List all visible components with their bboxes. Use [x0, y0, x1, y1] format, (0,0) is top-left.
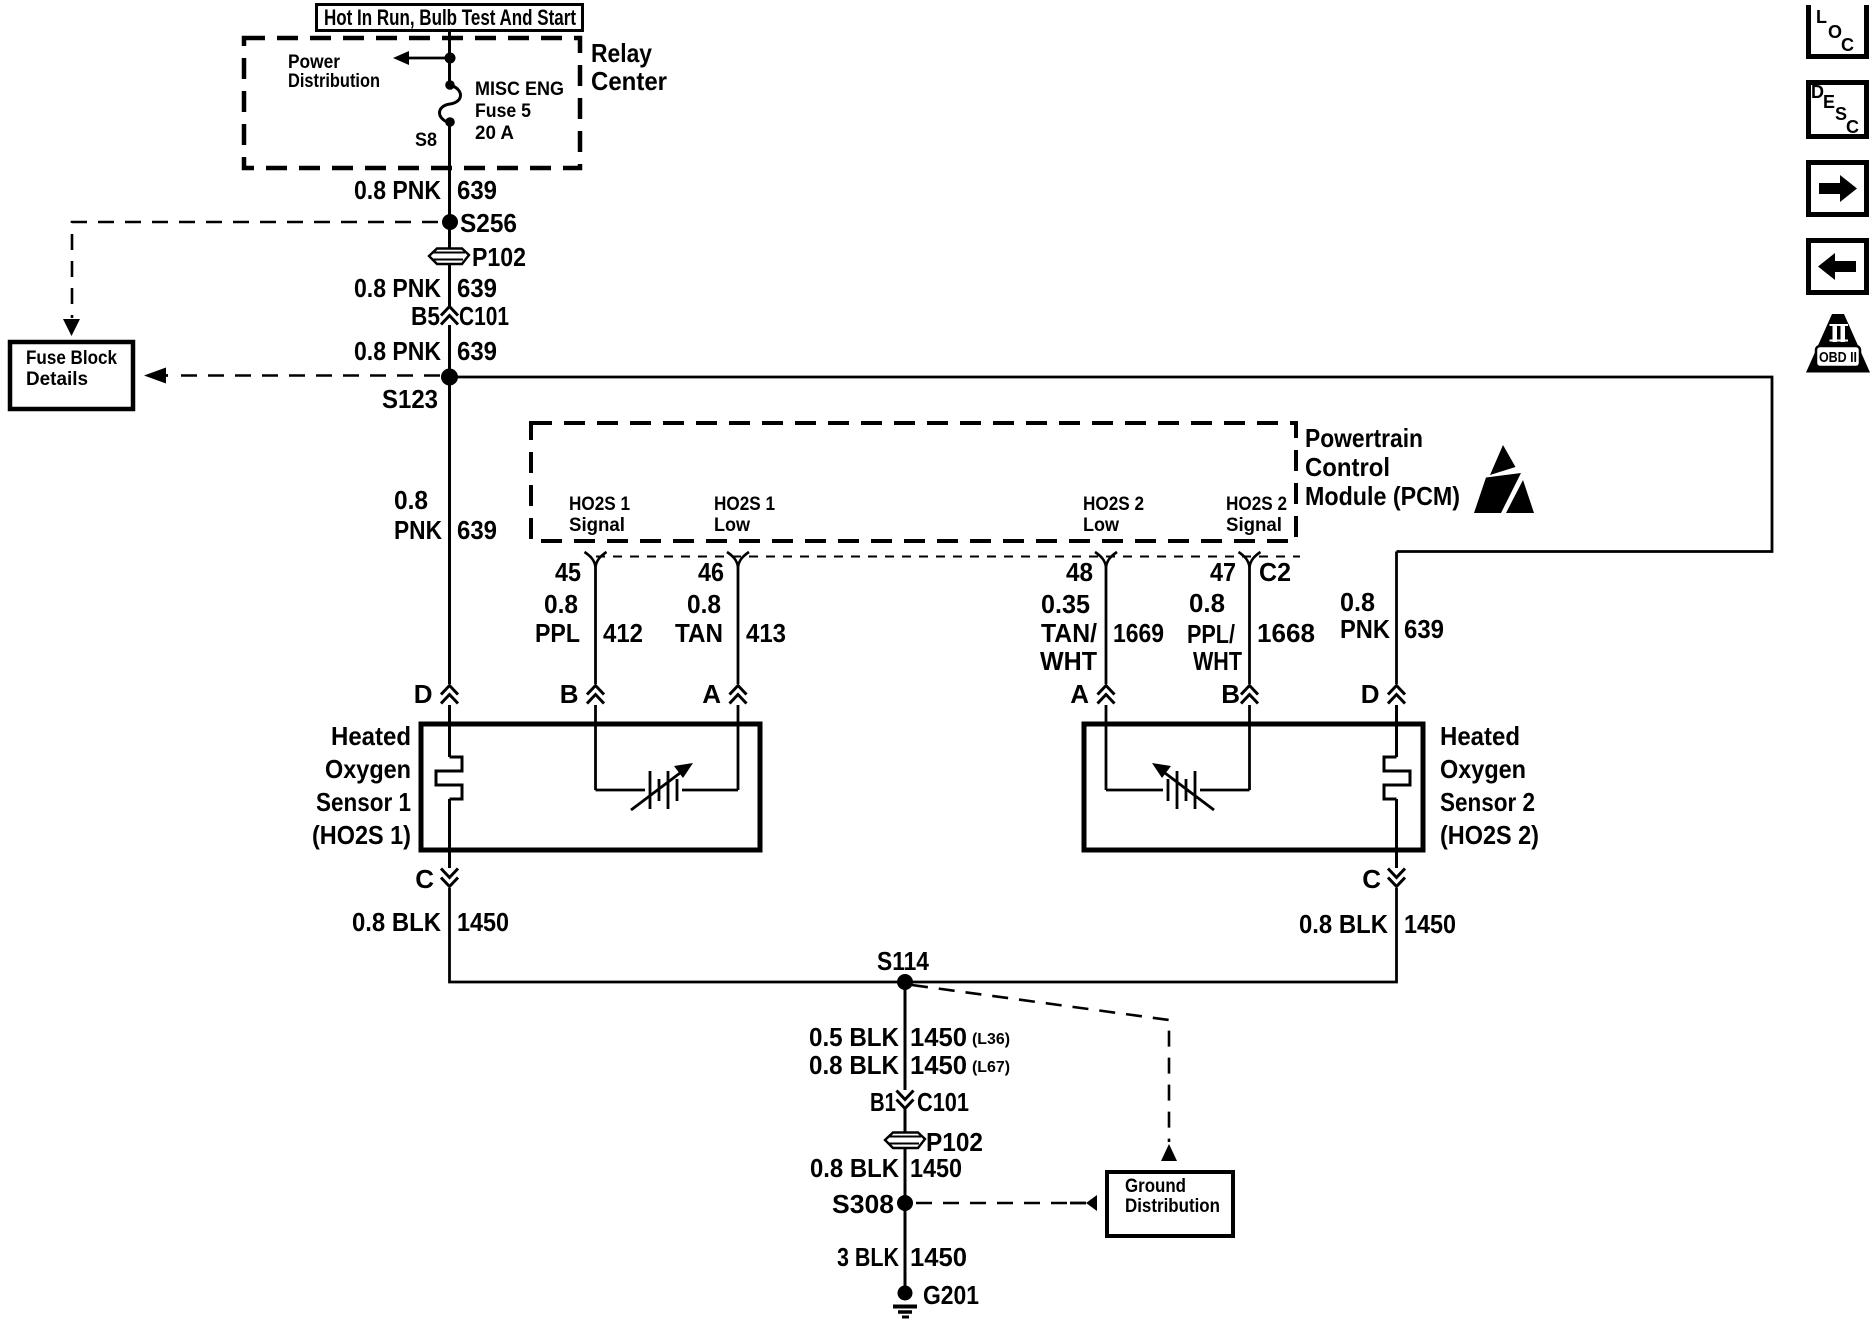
- terminal D (HO2S 1): [414, 679, 458, 709]
- terminal C (HO2S 1): [415, 864, 458, 894]
- sense element cell (HO2S 1): [631, 763, 693, 810]
- svg-text:Signal: Signal: [569, 515, 625, 536]
- dashed reference: S256 to Fuse Block Details: [63, 222, 438, 336]
- svg-text:WHT: WHT: [1193, 646, 1242, 676]
- svg-text:413: 413: [746, 618, 786, 648]
- svg-text:Powertrain: Powertrain: [1305, 423, 1423, 453]
- svg-text:A: A: [702, 679, 721, 709]
- svg-text:1669: 1669: [1113, 618, 1164, 648]
- label: 0.8 BLK 1450 (right): [1299, 909, 1456, 939]
- svg-text:B1: B1: [870, 1087, 896, 1117]
- svg-text:HO2S 2: HO2S 2: [1083, 494, 1144, 515]
- svg-text:Oxygen: Oxygen: [1440, 754, 1526, 784]
- splice S114: [897, 974, 913, 990]
- svg-text:A: A: [1070, 679, 1089, 709]
- splice S256: [442, 214, 458, 230]
- svg-text:1450: 1450: [910, 1242, 967, 1272]
- icon: back arrow tab: [1809, 241, 1867, 293]
- fuse: MISC ENG Fuse 5 20 A: [440, 80, 461, 127]
- svg-text:PNK: PNK: [394, 515, 442, 545]
- svg-text:639: 639: [1404, 614, 1444, 644]
- svg-text:0.8 PNK: 0.8 PNK: [354, 336, 441, 366]
- svg-text:0.35: 0.35: [1041, 589, 1090, 619]
- svg-text:Relay: Relay: [591, 38, 652, 68]
- splice S123: [441, 369, 458, 386]
- svg-text:S308: S308: [832, 1189, 894, 1219]
- splice S308: [897, 1195, 913, 1211]
- terminal B (HO2S 1): [560, 679, 604, 709]
- label: 0.8 BLK 1450 (left): [352, 907, 509, 937]
- svg-text:1450: 1450: [910, 1153, 962, 1183]
- label: 0.5 BLK 1450 (L36): [809, 1022, 1010, 1052]
- svg-text:WHT: WHT: [1040, 646, 1097, 676]
- dashed reference: S114 to Ground Distribution: [912, 985, 1177, 1161]
- svg-text:PNK: PNK: [1340, 614, 1390, 644]
- inline connector P102: [429, 242, 526, 272]
- wire: pin 45 to HO2S 1 terminal B (0.8 PPL 412): [594, 566, 597, 684]
- svg-text:HO2S 1: HO2S 1: [714, 494, 775, 515]
- svg-text:C: C: [1362, 864, 1381, 894]
- ESD sensitive device symbol: [1474, 445, 1534, 513]
- connector C101 pin B1: [870, 1087, 969, 1117]
- svg-text:47: 47: [1210, 557, 1236, 587]
- wire: HO2S 1 C to S114 (0.8 BLK 1450): [450, 888, 1397, 982]
- wire: terminal D into HO2S 1 heater: [448, 705, 451, 757]
- inline connector P102 (lower): [885, 1127, 983, 1157]
- svg-text:20 A: 20 A: [475, 123, 514, 144]
- icon: OBD II symbol: [1806, 314, 1870, 373]
- terminal A (HO2S 1): [702, 679, 746, 709]
- svg-text:E: E: [1823, 92, 1835, 112]
- label: pin HO2S 2 Signal: [1226, 494, 1287, 536]
- label: Heated Oxygen Sensor 2 (HO2S 2): [1440, 721, 1539, 850]
- component: Heated Oxygen Sensor 2 (HO2S 2) box: [1084, 724, 1423, 850]
- svg-text:Details: Details: [26, 369, 88, 390]
- connector C101 pin B5: [411, 301, 509, 331]
- svg-text:O: O: [1828, 22, 1842, 42]
- svg-text:Heated: Heated: [331, 721, 411, 751]
- svg-text:TAN: TAN: [675, 618, 723, 648]
- svg-text:Signal: Signal: [1226, 515, 1282, 536]
- svg-text:639: 639: [457, 336, 497, 366]
- wire: junction to fuse: [448, 58, 451, 85]
- wire: feed box down to Relay Center: [448, 30, 451, 58]
- svg-text:S8: S8: [415, 130, 437, 151]
- svg-text:0.8: 0.8: [1340, 587, 1375, 617]
- label: MISC ENG Fuse 5 20 A: [475, 79, 564, 144]
- svg-text:MISC ENG: MISC ENG: [475, 79, 564, 100]
- svg-text:0.8: 0.8: [687, 589, 721, 619]
- component: Heated Oxygen Sensor 1 (HO2S 1) box: [421, 724, 760, 850]
- label: 3 BLK 1450: [837, 1242, 967, 1272]
- label: Powertrain Control Module (PCM): [1305, 423, 1460, 511]
- label: 0.8 PNK 639: [354, 175, 497, 205]
- svg-text:G201: G201: [923, 1280, 979, 1310]
- svg-text:B5: B5: [411, 301, 440, 331]
- terminal D (HO2S 2): [1361, 679, 1405, 709]
- terminal C (HO2S 2): [1362, 864, 1405, 894]
- wire: HO2S 1 sense element bus: [596, 705, 739, 790]
- wire: terminal D into HO2S 2 heater: [1395, 705, 1398, 757]
- svg-text:HO2S 2: HO2S 2: [1226, 494, 1287, 515]
- svg-text:Low: Low: [714, 515, 750, 536]
- svg-text:1668: 1668: [1257, 618, 1315, 648]
- label: pin HO2S 1 Signal: [569, 494, 630, 536]
- wire: pin 46 to HO2S 1 terminal A (0.8 TAN 413): [737, 566, 740, 684]
- Relay Center box (dashed): [244, 38, 580, 168]
- svg-text:C: C: [1846, 117, 1859, 137]
- wire: C101 to S123: [448, 325, 451, 377]
- svg-text:(L67): (L67): [972, 1059, 1010, 1076]
- svg-text:Oxygen: Oxygen: [325, 754, 411, 784]
- wire: S308 to G201 (3 BLK 1450): [904, 1203, 907, 1293]
- svg-text:1450: 1450: [1404, 909, 1456, 939]
- wire: fuse to S256 (0.8 PNK 639): [448, 122, 451, 222]
- svg-text:Sensor 1: Sensor 1: [316, 787, 411, 817]
- label: 0.8 BLK 1450 (L67): [809, 1050, 1010, 1080]
- wire: S114 down to C101 (0.5/0.8 BLK 1450): [904, 982, 907, 1090]
- wire: S123 down to HO2S 1 terminal D (0.8 PNK 639): [448, 377, 451, 684]
- svg-text:D: D: [1361, 679, 1380, 709]
- node: Ground Distribution box: [1107, 1172, 1233, 1236]
- svg-text:(L36): (L36): [972, 1031, 1010, 1048]
- svg-text:PPL: PPL: [535, 618, 580, 648]
- heater element (HO2S 1): [436, 757, 462, 799]
- connector C2 dashed boundary: [596, 556, 1300, 558]
- wire: arrow to Power Distribution: [393, 51, 450, 65]
- pin 45 connector: [555, 552, 607, 587]
- Powertrain Control Module box (dashed): [531, 423, 1296, 541]
- wire: feed to HO2S 2 terminal D (0.8 PNK 639): [1395, 552, 1398, 685]
- svg-text:0.8: 0.8: [394, 485, 428, 515]
- svg-text:C2: C2: [1259, 557, 1291, 587]
- svg-text:Low: Low: [1083, 515, 1119, 536]
- svg-text:3 BLK: 3 BLK: [837, 1242, 899, 1272]
- label: 0.8 PNK 639: [394, 485, 497, 545]
- svg-text:48: 48: [1066, 557, 1093, 587]
- label: Heated Oxygen Sensor 1 (HO2S 1): [312, 721, 411, 850]
- pin 46 connector: [698, 552, 749, 587]
- junction: wire to fuse tap: [445, 53, 456, 64]
- wire: HO2S 2 sense element bus: [1106, 705, 1250, 790]
- svg-text:46: 46: [698, 557, 724, 587]
- svg-text:639: 639: [457, 175, 497, 205]
- label: 0.8 PNK 639: [354, 273, 497, 303]
- svg-text:Fuse 5: Fuse 5: [475, 101, 531, 122]
- svg-text:0.8 BLK: 0.8 BLK: [810, 1153, 899, 1183]
- svg-text:Power: Power: [288, 52, 341, 73]
- svg-text:HO2S 1: HO2S 1: [569, 494, 630, 515]
- svg-text:C101: C101: [917, 1087, 969, 1117]
- svg-text:Control: Control: [1305, 452, 1390, 482]
- svg-text:Distribution: Distribution: [1125, 1196, 1220, 1217]
- svg-text:45: 45: [555, 557, 581, 587]
- svg-text:Center: Center: [591, 66, 667, 96]
- svg-text:(HO2S 2): (HO2S 2): [1440, 820, 1539, 850]
- svg-text:L: L: [1816, 7, 1827, 27]
- wire: pin 48 to HO2S 2 terminal A (0.35 TAN/WHT 1669): [1105, 566, 1108, 684]
- pin 48 connector: [1066, 552, 1117, 587]
- svg-text:Heated: Heated: [1440, 721, 1520, 751]
- svg-text:B: B: [1221, 679, 1240, 709]
- dashed reference: S308 to Ground Distribution: [916, 1195, 1097, 1211]
- icon: forward arrow tab: [1809, 163, 1867, 215]
- dashed reference: S123 to Fuse Block Details: [144, 368, 440, 384]
- label: pin HO2S 2 Low: [1083, 494, 1144, 536]
- svg-text:Sensor 2: Sensor 2: [1440, 787, 1535, 817]
- svg-text:639: 639: [457, 273, 497, 303]
- svg-text:P102: P102: [472, 242, 526, 272]
- svg-text:Module (PCM): Module (PCM): [1305, 481, 1460, 511]
- svg-text:C101: C101: [459, 301, 509, 331]
- svg-text:C: C: [415, 864, 434, 894]
- svg-text:Distribution: Distribution: [288, 71, 380, 92]
- node: Hot In Run, Bulb Test And Start feed box: [317, 5, 583, 31]
- svg-text:639: 639: [457, 515, 497, 545]
- svg-text:0.8 PNK: 0.8 PNK: [354, 175, 441, 205]
- svg-text:Fuse Block: Fuse Block: [26, 348, 117, 369]
- wire: S256 to P102: [448, 222, 451, 306]
- svg-text:0.8 PNK: 0.8 PNK: [354, 273, 441, 303]
- ground G201: [893, 1280, 979, 1317]
- node: Fuse Block Details box: [10, 342, 133, 409]
- wire: heater to terminal C: [448, 799, 451, 868]
- icon: LOC tab: [1809, 5, 1867, 57]
- pin 47 connector C2: [1210, 552, 1291, 587]
- svg-text:S123: S123: [382, 384, 438, 414]
- svg-text:Ground: Ground: [1125, 1176, 1186, 1197]
- wire: C101 to P102: [904, 1109, 907, 1203]
- svg-text:412: 412: [603, 618, 643, 648]
- wire: pin 47 to HO2S 2 terminal B (0.8 PPL/WHT 1668): [1248, 566, 1251, 684]
- icon: DESC tab: [1809, 82, 1867, 137]
- svg-text:(HO2S 1): (HO2S 1): [312, 820, 411, 850]
- label: 0.8 BLK 1450: [810, 1153, 962, 1183]
- svg-text:0.8: 0.8: [1189, 588, 1225, 618]
- svg-text:0.8: 0.8: [544, 589, 578, 619]
- heater element (HO2S 2): [1384, 757, 1410, 799]
- svg-text:0.5 BLK: 0.5 BLK: [809, 1022, 899, 1052]
- svg-text:1450: 1450: [457, 907, 509, 937]
- svg-text:B: B: [560, 679, 579, 709]
- svg-text:D: D: [414, 679, 433, 709]
- svg-text:C: C: [1841, 35, 1854, 55]
- svg-text:0.8 BLK: 0.8 BLK: [809, 1050, 899, 1080]
- svg-text:0.8 BLK: 0.8 BLK: [1299, 909, 1388, 939]
- svg-text:0.8 BLK: 0.8 BLK: [352, 907, 441, 937]
- svg-text:S256: S256: [460, 208, 517, 238]
- svg-text:1450: 1450: [910, 1050, 967, 1080]
- svg-text:S114: S114: [877, 946, 929, 976]
- svg-text:1450: 1450: [910, 1022, 967, 1052]
- terminal A (HO2S 2): [1070, 679, 1114, 709]
- wire: S123 right and around to HO2S 2 heater feed: [450, 377, 1773, 552]
- svg-text:TAN/: TAN/: [1041, 618, 1097, 648]
- sense element cell (HO2S 2): [1152, 763, 1214, 810]
- label: pin HO2S 1 Low: [714, 494, 775, 536]
- wire: heater to terminal C: [1395, 799, 1398, 868]
- svg-text:Hot In Run, Bulb Test And Star: Hot In Run, Bulb Test And Start: [324, 5, 577, 30]
- svg-text:OBD II: OBD II: [1819, 350, 1857, 366]
- svg-text:PPL/: PPL/: [1187, 619, 1235, 649]
- terminal B (HO2S 2): [1221, 679, 1258, 709]
- label: 0.8 PNK 639: [354, 336, 497, 366]
